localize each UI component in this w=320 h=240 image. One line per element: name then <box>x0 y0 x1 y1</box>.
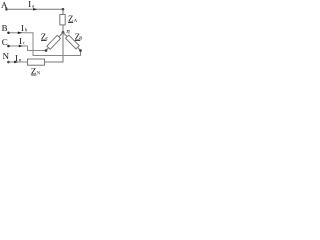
background <box>0 0 86 78</box>
terminal dot N <box>7 61 10 64</box>
terminal dot ZC <box>45 49 48 52</box>
wire phase A <box>7 8 64 10</box>
resistor ZN <box>28 59 45 65</box>
terminal label N <box>3 53 9 59</box>
wire ZC to terminal <box>46 48 48 51</box>
resistor ZC <box>47 35 61 49</box>
terminal label C <box>2 39 7 45</box>
terminal label A <box>1 2 7 8</box>
terminal dot B <box>7 32 10 35</box>
label ZB <box>75 34 80 40</box>
node n label <box>67 30 70 33</box>
current arrow Ib <box>18 32 22 35</box>
current arrow Ic <box>19 45 23 48</box>
node n dot <box>62 31 65 34</box>
resistor ZA <box>60 15 65 25</box>
label Ic <box>19 38 21 44</box>
resistor ZB <box>66 35 80 49</box>
wire n to ZC <box>59 33 63 38</box>
terminal dot A <box>5 8 8 11</box>
wire neutral from node n down to ZN level <box>45 33 64 63</box>
label ZA <box>68 16 73 22</box>
label ZN <box>31 68 36 74</box>
wire A corner down to ZA <box>62 9 64 14</box>
terminal dot C <box>7 45 10 48</box>
label Ib <box>21 25 23 31</box>
wire N to ZN <box>9 61 28 63</box>
wire n to ZB <box>63 33 67 37</box>
label Ia <box>29 1 31 7</box>
label In <box>15 55 17 61</box>
current arrow Ia <box>33 8 37 11</box>
label ZC <box>41 34 46 40</box>
junction dot A corner <box>62 8 65 11</box>
terminal dot ZB <box>79 49 82 52</box>
current arrow In <box>14 61 18 64</box>
wire phase C <box>9 46 47 51</box>
wire ZB to terminal <box>78 47 81 50</box>
wire ZA to node n <box>62 25 64 33</box>
wire phase B <box>9 33 81 56</box>
terminal label B <box>2 25 7 31</box>
